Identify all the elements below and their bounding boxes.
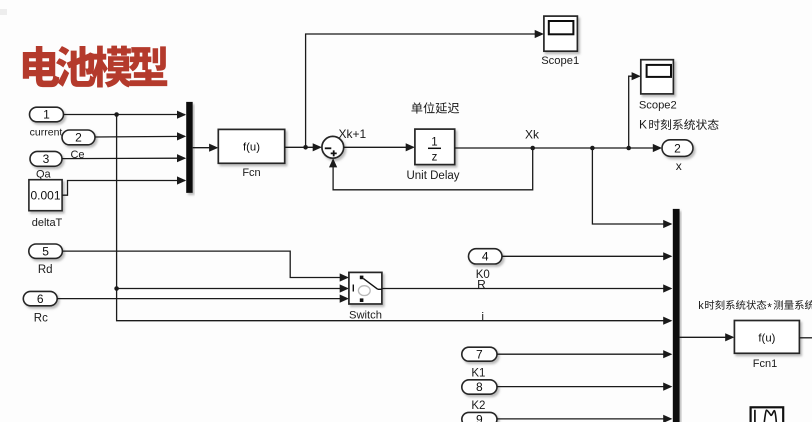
inport 4 — [469, 249, 503, 264]
wire Fcn to Sum — [285, 146, 321, 148]
svg-text:Xk: Xk — [525, 128, 540, 142]
svg-text:1: 1 — [43, 108, 50, 122]
scope Scope1 — [544, 16, 578, 51]
wire Unit Delay to outport x — [455, 147, 661, 149]
switch block Switch — [349, 272, 382, 304]
svg-text:Rd: Rd — [38, 264, 53, 276]
svg-text:Fcn1: Fcn1 — [753, 358, 777, 370]
svg-text:0.001: 0.001 — [30, 189, 60, 203]
wire feedback to Sum plus input — [333, 148, 533, 190]
svg-text:k: k — [698, 300, 704, 312]
svg-text:*: * — [767, 301, 772, 315]
svg-text:i: i — [481, 309, 484, 323]
inport 5 — [29, 244, 63, 258]
svg-text:1: 1 — [431, 137, 437, 149]
svg-text:Rc: Rc — [34, 312, 48, 324]
wire inport9 to Mux2 — [497, 418, 671, 420]
scope Scope2 — [641, 60, 674, 94]
label K时刻系统状态 — [639, 118, 719, 132]
svg-text:Qa: Qa — [36, 169, 52, 181]
svg-text:x: x — [676, 159, 682, 173]
inport 9 — [462, 412, 497, 422]
sum block (minus left, plus bottom) — [322, 136, 344, 158]
junction Xk feedback — [530, 146, 535, 151]
wire Fcn1 output to edge — [799, 337, 812, 339]
svg-text:2: 2 — [674, 141, 681, 155]
svg-text:Scope2: Scope2 — [639, 99, 677, 111]
junction control branch — [114, 286, 119, 291]
wire inport2 to Mux1 — [95, 135, 185, 138]
svg-text:current: current — [30, 126, 63, 138]
svg-text:K2: K2 — [471, 400, 485, 412]
wire inport1 to Mux1 — [64, 114, 186, 116]
inport 7 — [462, 347, 497, 361]
function block Fcn f(u) — [218, 129, 284, 163]
svg-text:f(u): f(u) — [758, 333, 775, 345]
wire inport6 to Switch input 3 — [57, 298, 347, 300]
wire constant to Mux1 — [62, 181, 185, 196]
svg-text:3: 3 — [43, 152, 50, 166]
svg-text:2: 2 — [75, 131, 82, 145]
function block Fcn1 f(u) — [734, 321, 799, 354]
svg-text:8: 8 — [476, 380, 483, 394]
wire inport7 to Mux2 — [497, 353, 671, 355]
junction Xk to Scope2 — [626, 146, 631, 151]
inport 8 — [462, 380, 497, 394]
mux Mux1 (vertical bar) — [186, 102, 193, 193]
svg-text:Xk+1: Xk+1 — [339, 127, 367, 141]
svg-text:R: R — [477, 277, 486, 291]
junction on current line — [114, 112, 119, 117]
svg-text:z: z — [432, 152, 438, 164]
wire Mux2 to Fcn1 — [680, 336, 733, 338]
wire inport3 to Mux1 — [62, 157, 185, 159]
svg-text:6: 6 — [37, 292, 44, 306]
wire inport8 to Mux2 — [497, 386, 671, 388]
label k时刻系统状态*测量系统 — [698, 300, 812, 315]
svg-text:Scope1: Scope1 — [541, 55, 579, 67]
inport 2 — [62, 130, 95, 145]
svg-text:7: 7 — [476, 347, 483, 361]
inport 1 — [30, 107, 64, 122]
svg-text:Fcn: Fcn — [242, 167, 260, 179]
wire junction up to Scope1 — [306, 34, 543, 147]
unit delay block 1/z — [415, 129, 455, 165]
junction Fcn output — [303, 145, 308, 150]
partial display block (bottom right) — [751, 407, 784, 422]
wire Xk down to Mux2 input 1 — [592, 148, 671, 224]
wire current branch down and i line — [117, 115, 671, 321]
title text 电池模型 (battery model) — [23, 46, 167, 88]
mux Mux2 (vertical bar) — [673, 209, 680, 422]
svg-text:4: 4 — [482, 250, 489, 264]
inport 3 — [30, 151, 62, 166]
constant block 0.001 — [29, 180, 62, 211]
outport 2 x — [662, 140, 693, 157]
wire inport5 to Switch input 1 — [62, 251, 347, 277]
wire junction to Switch control input — [117, 288, 348, 290]
wire Switch output to Mux2 (R line) — [382, 288, 671, 290]
svg-text:deltaT: deltaT — [32, 217, 63, 229]
svg-text:K1: K1 — [471, 367, 485, 379]
inport 6 — [23, 291, 57, 305]
svg-text:K: K — [639, 118, 647, 132]
junction Xk to mux2 — [590, 146, 595, 151]
wire inport4 to Mux2 — [502, 255, 671, 257]
svg-text:Unit Delay: Unit Delay — [406, 170, 459, 182]
wire Xk up to Scope2 — [629, 76, 640, 148]
svg-text:f(u): f(u) — [243, 142, 260, 154]
svg-text:5: 5 — [42, 244, 49, 258]
label 单位延迟 (unit delay) — [411, 102, 459, 113]
wire Sum to Unit Delay — [344, 146, 414, 148]
svg-text:9: 9 — [476, 413, 483, 422]
svg-text:Switch: Switch — [349, 309, 382, 321]
wire Mux1 to Fcn — [193, 147, 217, 149]
